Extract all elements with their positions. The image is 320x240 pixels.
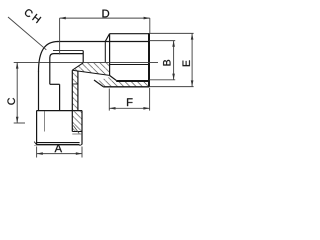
E arrow bottom: [191, 80, 194, 86]
inner bore corner (rounded): [50, 54, 83, 85]
hex bottom face line 1: [37, 142, 80, 144]
D ext right: [149, 18, 151, 33]
thread runout bevel: [73, 126, 79, 134]
top edge + male thread root top: [58, 41, 150, 43]
label CH: [24, 8, 34, 18]
label E: [183, 60, 190, 66]
thread chamfer base vertical: [104, 42, 106, 63]
label D: [102, 10, 109, 18]
label C: [7, 98, 15, 105]
female bore left line (light): [44, 111, 46, 132]
left outer wall of vertical arm: [38, 71, 40, 111]
hex right wall: [81, 111, 83, 145]
E ext top: [150, 32, 194, 34]
inner bore upper line: [53, 50, 83, 52]
E arrow top: [191, 33, 194, 39]
female thread bottom: [72, 131, 82, 133]
hatch: female port wall band (hex part): [72, 111, 82, 132]
CH leader: [8, 17, 46, 50]
counterbore right wall: [59, 84, 61, 111]
E ext bottom: [150, 86, 194, 88]
male bore bottom line: [110, 64, 150, 66]
male end face: [148, 33, 150, 87]
thread start line in band: [72, 83, 78, 85]
male left edge: [109, 34, 111, 76]
outer corner arc: [39, 42, 59, 72]
E dim line: [191, 33, 193, 86]
C arrow top: [16, 62, 19, 68]
male top-left chamfer: [105, 34, 109, 42]
dimension arrowheads: [16, 17, 194, 155]
F arrow left: [109, 107, 115, 110]
bore step vertical: [82, 51, 84, 63]
long horizontal line (C extension + bore bottom): [14, 61, 158, 63]
C dim line: [16, 62, 18, 123]
female wall inner line: [71, 70, 73, 131]
male bottom-left chamfer: [94, 80, 103, 87]
A arrow left: [37, 152, 43, 155]
hex bottom face line 2: [37, 144, 80, 146]
D arrow left: [60, 17, 66, 20]
hex left wall: [36, 111, 38, 145]
A ext right: [81, 147, 83, 158]
F dim line: [109, 107, 149, 109]
C arrow bottom: [16, 117, 19, 123]
C ext bottom: [14, 122, 25, 124]
hex bottom chamfer left: [34, 142, 37, 145]
F ext right: [149, 88, 151, 111]
hex bottom light line: [34, 145, 80, 147]
label F: [127, 98, 132, 106]
hatch: female port wall band (arm part): [72, 71, 78, 112]
bore-bottom shallow diagonal: [72, 70, 109, 75]
D ext left: [59, 18, 61, 54]
D arrow right: [144, 17, 150, 20]
A dim line: [37, 153, 82, 155]
hex bottom chamfer right: [79, 145, 82, 146]
hatch: section wall under horizontal bore: [72, 63, 109, 76]
A arrow right: [76, 152, 82, 155]
label A: [55, 144, 62, 152]
B arrow top: [172, 41, 175, 47]
B dim line: [173, 41, 175, 80]
F arrow right: [143, 107, 149, 110]
B arrow bottom: [172, 74, 175, 80]
hex top face: [37, 110, 82, 112]
arm outer right wall: [77, 71, 79, 111]
A ext left: [36, 147, 38, 158]
B ext bottom: [150, 79, 176, 81]
B ext top: [150, 40, 176, 42]
label B: [163, 60, 170, 66]
thread root fade bend: [110, 75, 117, 80]
male thread root bottom (thick): [116, 80, 149, 82]
D dim line: [60, 17, 150, 19]
female thread cone diagonal: [72, 63, 83, 70]
male thread OD top: [110, 33, 150, 35]
female thread bottom second line: [72, 133, 82, 135]
counterbore shoulder jog: [50, 83, 60, 85]
hatch: male thread bottom wall band: [96, 77, 149, 87]
male thread OD bottom: [103, 86, 149, 88]
F ext left: [108, 89, 110, 111]
